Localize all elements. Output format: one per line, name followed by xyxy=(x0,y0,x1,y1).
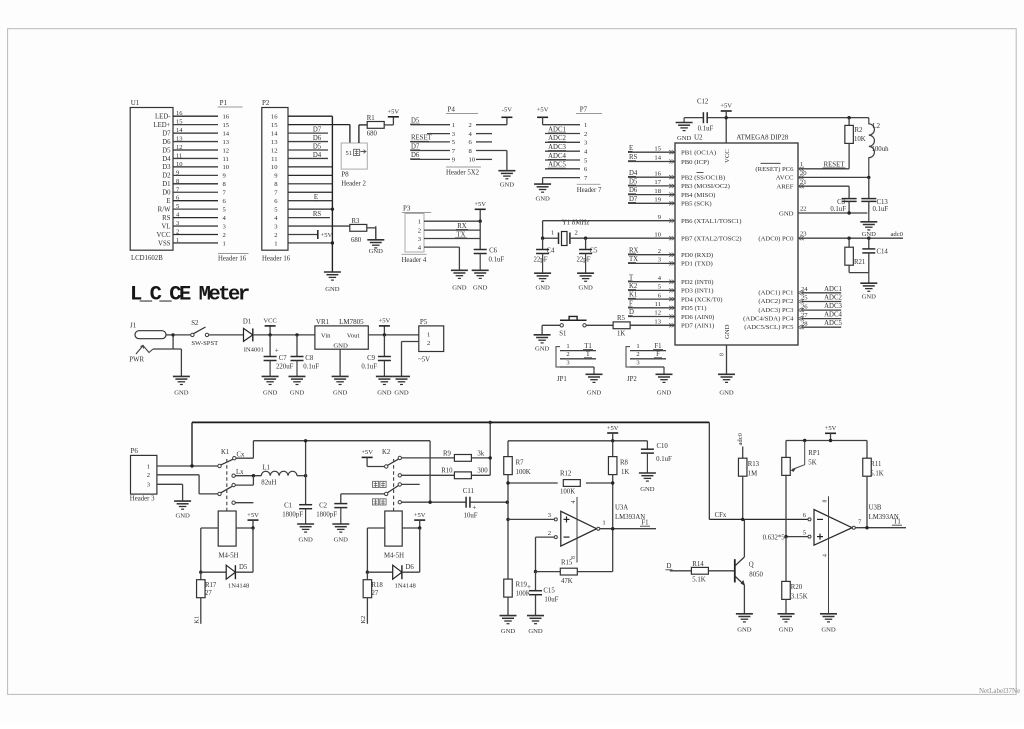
wire C2 to K2 pole2 xyxy=(341,493,385,495)
wire XTAL2 from MCU PB7 xyxy=(570,237,675,239)
svg-text:4: 4 xyxy=(658,275,662,282)
svg-text:E: E xyxy=(629,145,633,152)
P4 pin2 wire to -5V xyxy=(476,117,507,124)
svg-text:(ADC0) PC0: (ADC0) PC0 xyxy=(758,236,794,243)
svg-text:GND: GND xyxy=(501,628,516,635)
svg-text:ADC5: ADC5 xyxy=(548,162,566,169)
wire S2 to D1 xyxy=(209,334,244,336)
junction C9 xyxy=(383,333,386,336)
svg-text:18: 18 xyxy=(654,188,661,195)
wire S1 to R5 xyxy=(586,324,613,326)
wire Q emitter to ground xyxy=(743,585,745,614)
connector P3 Header 4 xyxy=(402,205,432,264)
U1 pin wires and numbers xyxy=(173,110,218,244)
svg-text:D4: D4 xyxy=(629,170,638,177)
svg-text:M4-5H: M4-5H xyxy=(218,553,238,560)
svg-text:D7: D7 xyxy=(411,143,420,150)
svg-text:PD1 (TXD): PD1 (TXD) xyxy=(681,261,713,268)
svg-text:GND: GND xyxy=(862,294,877,301)
wire VR1 Vout to P5 xyxy=(368,334,419,336)
svg-text:RX: RX xyxy=(457,223,467,230)
wire D1 to VR1 net VCC xyxy=(253,334,315,336)
svg-text:1: 1 xyxy=(452,122,455,129)
svg-text:R9: R9 xyxy=(443,450,452,457)
svg-text:3: 3 xyxy=(418,236,422,243)
wire AVCC node down to C13 xyxy=(868,177,870,198)
capacitor C12 0.1uF xyxy=(697,99,713,133)
junction K2 coil +5V xyxy=(418,526,421,529)
svg-text:1N4148: 1N4148 xyxy=(395,583,417,590)
svg-text:4: 4 xyxy=(274,215,278,222)
crystal Y1 8MHz xyxy=(551,220,589,246)
wire A drop to calibrate throw xyxy=(429,441,431,502)
svg-text:R17: R17 xyxy=(205,582,217,589)
ground of R20 xyxy=(778,614,795,634)
ground of P4 pin8 xyxy=(498,171,515,189)
svg-text:ADC1: ADC1 xyxy=(824,286,842,293)
svg-text:0.1uF: 0.1uF xyxy=(361,363,377,370)
svg-text:PD5 (T1): PD5 (T1) xyxy=(681,305,706,312)
junction AVCC L2 xyxy=(867,176,870,179)
svg-text:680: 680 xyxy=(351,237,362,244)
svg-text:Header 4: Header 4 xyxy=(402,257,427,264)
resistor R13 1M xyxy=(738,447,759,520)
resistor R19 100K xyxy=(504,579,531,616)
wire K2 coil left xyxy=(367,528,384,572)
ground of R3 xyxy=(367,226,384,255)
svg-text:1: 1 xyxy=(551,230,554,237)
P3 pin4 wire to ground xyxy=(424,247,459,270)
resistor R3 680 xyxy=(350,218,367,244)
svg-text:6: 6 xyxy=(274,198,278,205)
svg-text:CFx: CFx xyxy=(715,512,727,519)
svg-text:D5: D5 xyxy=(239,564,248,571)
wire to D6 xyxy=(367,571,392,573)
svg-text:51: 51 xyxy=(346,150,352,157)
wire K1 throw4 stub xyxy=(235,502,253,504)
power +5V at P3 xyxy=(474,201,486,209)
svg-text:2: 2 xyxy=(636,351,639,358)
svg-text:D1: D1 xyxy=(243,318,251,325)
svg-text:R8: R8 xyxy=(620,460,629,467)
wire K1 coil right down xyxy=(252,528,254,572)
LCD module U1 LCD1602B xyxy=(130,99,173,262)
svg-text:S1: S1 xyxy=(559,330,566,337)
svg-text:300: 300 xyxy=(477,467,488,474)
svg-text:+: + xyxy=(472,504,476,512)
potentiometer RP1 5K xyxy=(782,441,820,476)
svg-text:PD3 (INT1): PD3 (INT1) xyxy=(681,288,714,295)
svg-text:D0: D0 xyxy=(162,190,171,197)
wire XTAL1 from MCU PB6 xyxy=(543,221,675,239)
svg-text:100K: 100K xyxy=(516,469,531,476)
svg-text:GND: GND xyxy=(535,196,550,203)
svg-text:14: 14 xyxy=(654,155,661,162)
svg-text:R7: R7 xyxy=(516,460,525,467)
svg-text:M4-5H: M4-5H xyxy=(384,553,404,560)
junction L1 C1 xyxy=(304,474,307,477)
svg-text:U3B: U3B xyxy=(869,505,882,512)
svg-text:LED+: LED+ xyxy=(153,122,170,129)
svg-text:5.1K: 5.1K xyxy=(870,470,883,477)
svg-text:11: 11 xyxy=(271,156,277,163)
svg-text:ADC2: ADC2 xyxy=(548,135,566,142)
ground of R21 C14 xyxy=(860,273,877,301)
svg-text:R3: R3 xyxy=(352,218,361,225)
wire K2 throw3 stub xyxy=(401,483,419,485)
junction P3-C6 xyxy=(479,220,482,223)
svg-text:5: 5 xyxy=(452,139,456,146)
svg-text:10K: 10K xyxy=(854,136,866,143)
MCU pin19 wire net D7 xyxy=(628,196,675,204)
svg-text:4: 4 xyxy=(823,554,829,557)
wire Q collector to CFx xyxy=(743,519,745,557)
svg-text:GND: GND xyxy=(500,182,515,189)
svg-text:16: 16 xyxy=(654,170,661,177)
svg-text:17: 17 xyxy=(654,179,661,186)
P2 pin 16 wire xyxy=(288,115,332,117)
ground of C4 xyxy=(534,254,551,292)
power +5V at R1 xyxy=(387,109,399,117)
svg-text:S2: S2 xyxy=(191,320,199,327)
junction K1 coil +5V xyxy=(251,526,254,529)
svg-text:D: D xyxy=(629,309,634,316)
svg-text:8: 8 xyxy=(223,181,227,188)
svg-text:D3: D3 xyxy=(162,164,171,171)
svg-text:D5: D5 xyxy=(411,118,420,125)
svg-text:VL: VL xyxy=(161,223,170,230)
svg-text:IN4001: IN4001 xyxy=(244,347,264,354)
wire RP1 node to pin5 xyxy=(807,536,809,538)
svg-text:7: 7 xyxy=(223,190,227,197)
svg-text:6: 6 xyxy=(658,292,662,299)
svg-text:GND: GND xyxy=(528,628,543,635)
junction J1 xyxy=(171,333,174,336)
svg-text:E: E xyxy=(166,198,170,205)
P2 pin 14 wire net D7 xyxy=(288,127,328,134)
wire to opamp pin3 xyxy=(508,518,554,520)
svg-text:4: 4 xyxy=(223,215,227,222)
relay K2 contacts xyxy=(382,449,401,511)
svg-text:P4: P4 xyxy=(448,106,456,114)
wire C1 node vertical xyxy=(305,441,307,505)
MCU pin26 wire net ADC3 xyxy=(798,303,842,312)
svg-text:C5: C5 xyxy=(590,248,599,255)
svg-text:10: 10 xyxy=(654,231,661,238)
svg-text:+5V: +5V xyxy=(537,107,549,114)
note NetLabel37N xyxy=(979,687,1020,695)
MCU pin6 wire net K1 xyxy=(628,292,675,300)
svg-text:22pF: 22pF xyxy=(577,257,591,264)
svg-text:GND: GND xyxy=(377,390,392,397)
svg-text:Lx: Lx xyxy=(236,469,244,476)
svg-text:GND: GND xyxy=(369,248,384,255)
svg-text:adc0: adc0 xyxy=(737,432,744,445)
svg-text:9: 9 xyxy=(274,173,278,180)
svg-text:ADC1: ADC1 xyxy=(548,126,566,133)
ground of Q xyxy=(736,614,753,634)
svg-text:9: 9 xyxy=(223,173,227,180)
svg-text:K2: K2 xyxy=(360,616,367,624)
svg-text:GND: GND xyxy=(473,285,488,292)
svg-text:T1: T1 xyxy=(893,519,901,526)
svg-text:0.1uF: 0.1uF xyxy=(489,257,505,264)
svg-text:GND: GND xyxy=(333,390,348,397)
svg-text:(RESET) PC6: (RESET) PC6 xyxy=(755,166,794,173)
capacitor C15 10uF xyxy=(527,572,559,616)
svg-text:R5: R5 xyxy=(617,315,626,322)
capacitor C10 0.1uF xyxy=(641,441,672,463)
svg-text:R10: R10 xyxy=(441,467,453,474)
svg-text:E: E xyxy=(314,194,318,201)
svg-text:U1: U1 xyxy=(131,99,140,107)
svg-text:GND: GND xyxy=(394,390,409,397)
inductor L2 100uh xyxy=(869,118,889,178)
resistor R2 10K xyxy=(845,118,866,169)
svg-text:12: 12 xyxy=(654,310,661,317)
wire J1 sleeve to ground xyxy=(180,349,182,376)
svg-text:RESET: RESET xyxy=(411,135,433,142)
svg-text:D5: D5 xyxy=(162,147,171,154)
junction calibrate xyxy=(428,501,431,504)
svg-text:Vout: Vout xyxy=(347,333,360,340)
svg-text:0.1uF: 0.1uF xyxy=(303,363,319,370)
svg-text:JP2: JP2 xyxy=(627,376,637,383)
power +5V at VR1 output xyxy=(379,318,391,335)
wire R21 C14 bottom xyxy=(849,272,869,274)
svg-text:PB3 (MOSI/OC2): PB3 (MOSI/OC2) xyxy=(681,183,730,190)
capacitor C8 0.1uF xyxy=(291,335,320,371)
svg-text:16: 16 xyxy=(176,110,183,117)
svg-text:D6: D6 xyxy=(406,564,415,571)
P7 pin3 wire net ADC2 xyxy=(545,135,580,142)
svg-text:27: 27 xyxy=(205,590,212,597)
relay K2 coil M4-5H xyxy=(384,511,404,560)
svg-text:1: 1 xyxy=(223,240,226,247)
svg-text:ADC2: ADC2 xyxy=(824,295,842,302)
MCU pin4 wire net T xyxy=(628,274,675,282)
junction R12 right xyxy=(611,481,614,484)
wire K2 throw4 to C11 xyxy=(401,501,466,503)
svg-text:6: 6 xyxy=(469,139,473,146)
svg-text:RESET: RESET xyxy=(824,161,846,168)
connector P2 Header 16 xyxy=(262,99,291,263)
svg-text:2: 2 xyxy=(418,227,421,234)
MCU pin24 wire net ADC1 xyxy=(798,286,842,295)
junction C8 xyxy=(295,333,298,336)
ground of C9 xyxy=(376,361,393,397)
power -5V xyxy=(501,107,512,118)
svg-text:GND: GND xyxy=(325,286,340,293)
svg-text:VSS: VSS xyxy=(158,240,171,247)
svg-text:GND: GND xyxy=(821,627,836,634)
svg-text:3: 3 xyxy=(548,512,552,519)
svg-text:F1: F1 xyxy=(641,520,648,527)
svg-text:4: 4 xyxy=(418,244,422,251)
P2 pin 3 wire to R3 xyxy=(288,225,350,227)
svg-text:C6: C6 xyxy=(489,248,498,255)
svg-text:14: 14 xyxy=(271,130,278,137)
svg-text:GND: GND xyxy=(677,135,692,142)
svg-text:13: 13 xyxy=(223,139,230,146)
diode D1 IN4001 xyxy=(243,318,264,353)
wire opamp pin2 xyxy=(536,537,555,572)
svg-text:GND: GND xyxy=(535,285,550,292)
svg-text:10uF: 10uF xyxy=(464,513,478,520)
junction R13 CFx xyxy=(741,518,744,521)
wire top rail right drop to CFx xyxy=(708,422,710,519)
svg-text:8050: 8050 xyxy=(749,572,763,579)
svg-text:(ADC2) PC2: (ADC2) PC2 xyxy=(758,298,793,305)
net label D wire xyxy=(666,563,692,571)
svg-text:12: 12 xyxy=(176,144,183,151)
svg-text:GND: GND xyxy=(298,537,313,544)
svg-text:U3A: U3A xyxy=(615,505,628,512)
svg-text:15: 15 xyxy=(176,119,183,126)
svg-text:+5V: +5V xyxy=(474,201,486,208)
svg-text:GND: GND xyxy=(578,285,593,292)
svg-text:26: 26 xyxy=(801,303,808,310)
svg-text:+5V: +5V xyxy=(825,425,837,432)
svg-text:D5: D5 xyxy=(313,143,322,150)
svg-text:(ADC3) PC3: (ADC3) PC3 xyxy=(758,307,794,314)
svg-text:K1: K1 xyxy=(221,449,229,456)
capacitor C4 22pF xyxy=(534,238,556,263)
svg-text:RS: RS xyxy=(313,211,322,218)
MCU pin11 wire net F xyxy=(628,300,675,308)
svg-text:L_C_CE Meter: L_C_CE Meter xyxy=(130,284,249,307)
svg-text:RP1: RP1 xyxy=(808,450,820,457)
svg-text:15: 15 xyxy=(223,122,230,129)
svg-text:2: 2 xyxy=(223,232,226,239)
svg-text:5: 5 xyxy=(658,284,662,291)
resistor R5 1K xyxy=(613,315,630,337)
ground of P2 bus xyxy=(324,272,341,293)
svg-text:C15: C15 xyxy=(543,588,555,595)
wire C11 to opamp node xyxy=(470,501,507,503)
svg-text:2: 2 xyxy=(584,131,587,138)
svg-text:C7: C7 xyxy=(279,355,288,362)
MCU pin1 RESET wire xyxy=(798,161,849,171)
svg-text:1: 1 xyxy=(566,343,569,350)
svg-text:+: + xyxy=(527,583,531,591)
pushbutton S1 xyxy=(559,316,586,337)
svg-text:VCC: VCC xyxy=(263,318,277,325)
P3 pin2 wire net RX xyxy=(424,223,480,230)
svg-text:+5V: +5V xyxy=(720,103,732,110)
svg-text:8: 8 xyxy=(823,500,829,503)
svg-text:7: 7 xyxy=(584,175,588,182)
svg-text:D: D xyxy=(667,563,672,570)
P4 pin5 wire net RESET xyxy=(410,135,450,142)
P4 pin1 wire net D5 xyxy=(410,118,450,125)
svg-text:5.1K: 5.1K xyxy=(692,577,705,584)
resistor R10 300 xyxy=(441,467,488,478)
svg-text:5: 5 xyxy=(584,157,588,164)
capacitor C9 0.1uF xyxy=(361,335,391,371)
svg-text:3: 3 xyxy=(584,140,588,147)
svg-text:(ADC4/SDA) PC4: (ADC4/SDA) PC4 xyxy=(743,315,794,322)
resistor R8 1K xyxy=(608,441,629,529)
svg-text:10: 10 xyxy=(223,164,230,171)
svg-text:3.15K: 3.15K xyxy=(791,593,808,600)
wire A Cx node rail xyxy=(253,440,430,442)
junction +5V bar xyxy=(829,439,832,442)
MCU pin12 wire net D xyxy=(628,309,675,317)
svg-text:LCD1602B: LCD1602B xyxy=(131,255,163,262)
MCU pin3 wire net TX xyxy=(628,256,675,264)
svg-text:ATMEGA8 DIP28: ATMEGA8 DIP28 xyxy=(736,135,788,142)
capacitor C6 0.1uF xyxy=(474,221,505,263)
ground of C7 xyxy=(262,361,279,397)
svg-text:3: 3 xyxy=(452,131,456,138)
svg-text:adc0: adc0 xyxy=(891,231,904,238)
svg-text:LM7805: LM7805 xyxy=(339,318,364,326)
svg-text:C10: C10 xyxy=(657,443,669,450)
svg-text:0.632*5: 0.632*5 xyxy=(763,535,786,542)
jumper JP1 net T1 T xyxy=(556,343,596,383)
svg-text:11: 11 xyxy=(176,152,182,159)
microcontroller U2 ATMEGA8 DIP28 xyxy=(675,134,798,346)
label 0.632*5 xyxy=(763,535,786,542)
svg-text:F: F xyxy=(656,351,660,358)
wire K1 coil left xyxy=(201,528,218,572)
svg-text:(ADC5/SCL) PC5: (ADC5/SCL) PC5 xyxy=(744,324,794,331)
svg-text:100K: 100K xyxy=(560,489,575,496)
svg-text:C9: C9 xyxy=(367,355,376,362)
P4 pin3 wire xyxy=(427,133,450,135)
capacitor C3 0.1uF xyxy=(830,199,856,213)
svg-text:T1: T1 xyxy=(584,343,592,350)
svg-text:19: 19 xyxy=(654,197,661,204)
MCU pin27 wire net ADC4 xyxy=(798,312,842,321)
P6 pin2 wire to relay K1 pole2 xyxy=(157,475,218,494)
label measure CJK xyxy=(373,481,387,487)
ground of pin22 xyxy=(860,213,877,238)
wire VR1 GND pin to ground xyxy=(339,349,341,376)
svg-text:7: 7 xyxy=(858,518,862,525)
wire L1 to C1 node xyxy=(297,475,306,477)
svg-text:1: 1 xyxy=(274,240,277,247)
MCU pin17 wire net D5 xyxy=(628,179,675,187)
svg-text:Vin: Vin xyxy=(321,333,331,340)
svg-text:L2: L2 xyxy=(873,123,881,130)
svg-text:2: 2 xyxy=(575,230,578,237)
svg-text:3: 3 xyxy=(223,223,227,230)
wire R3 to ground xyxy=(367,228,376,240)
svg-text:2: 2 xyxy=(147,472,150,479)
MCU pin18 wire net D6 xyxy=(628,187,675,195)
ground of JP2 xyxy=(656,370,673,396)
ground of JP1 xyxy=(586,370,603,396)
op-amp U3B LM393AN xyxy=(803,496,899,545)
junction pin5 node xyxy=(784,535,787,538)
ground of P6 xyxy=(174,501,191,519)
P6 pin1 wire to relay K1 xyxy=(157,465,218,467)
svg-text:GND: GND xyxy=(719,390,734,397)
svg-text:D5: D5 xyxy=(629,179,638,186)
svg-text:1: 1 xyxy=(584,122,587,129)
svg-text:Q: Q xyxy=(749,562,754,569)
svg-text:9: 9 xyxy=(452,157,456,164)
capacitor C2 1800pF xyxy=(316,494,347,519)
svg-text:P8: P8 xyxy=(341,171,349,179)
svg-text:5: 5 xyxy=(803,529,807,536)
MCU pin9 number xyxy=(658,214,662,221)
svg-text:R20: R20 xyxy=(791,584,803,591)
svg-text:GND: GND xyxy=(452,285,467,292)
P2 pin 5 wire xyxy=(288,208,332,210)
